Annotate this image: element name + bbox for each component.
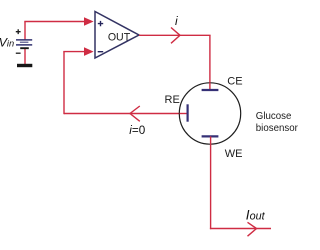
current arrow i chevron bbox=[171, 28, 180, 44]
current arrow i=0 chevron bbox=[130, 106, 140, 121]
glucose biosensor circle bbox=[179, 83, 240, 144]
voltage source V1 minus sign bbox=[16, 52, 21, 54]
voltage source V1 plus sign bbox=[16, 29, 21, 34]
wire into RE redraw over circle bbox=[180, 113, 187, 115]
svg-text:Iout: Iout bbox=[246, 207, 266, 222]
op-amp plus input symbol bbox=[98, 21, 103, 26]
battery plate long bottom bbox=[16, 44, 32, 46]
wire WE down bbox=[210, 136, 212, 229]
svg-text:RE: RE bbox=[165, 94, 180, 106]
svg-text:Vin: Vin bbox=[0, 36, 14, 50]
op-amp minus input symbol bbox=[98, 51, 104, 53]
svg-text:WE: WE bbox=[225, 148, 243, 160]
ground bbox=[17, 64, 32, 67]
wire op-amp output bbox=[139, 34, 211, 36]
battery plate short black bbox=[20, 47, 29, 49]
wire output down to CE bbox=[209, 35, 211, 89]
wire battery bottom to ground bbox=[24, 48, 26, 64]
arrowhead into plus input bbox=[84, 17, 94, 26]
wire bottom horizontal to Iout bbox=[210, 228, 271, 230]
wire into CE redraw over circle bbox=[209, 83, 211, 90]
current arrow Iout chevron bbox=[248, 222, 257, 236]
electrode CE bar bbox=[202, 89, 219, 91]
op-amp U1 body bbox=[95, 12, 139, 59]
svg-text:i=0: i=0 bbox=[129, 124, 145, 137]
svg-text:CE: CE bbox=[227, 76, 242, 88]
svg-text:biosensor: biosensor bbox=[256, 123, 299, 134]
wire battery top vertical bbox=[24, 22, 26, 41]
wire battery to op-amp plus input bbox=[24, 21, 85, 23]
battery plate short mid bbox=[20, 41, 29, 43]
arrowhead into minus input bbox=[84, 47, 94, 56]
svg-text:Glucose: Glucose bbox=[256, 111, 292, 122]
wire feedback to minus input bbox=[63, 51, 85, 53]
wire feedback from RE bbox=[64, 113, 187, 115]
electrode RE bar bbox=[187, 104, 189, 121]
svg-text:i: i bbox=[175, 14, 178, 28]
battery plate long top bbox=[16, 39, 32, 41]
electrode WE bar bbox=[202, 135, 219, 137]
svg-text:OUT: OUT bbox=[108, 32, 131, 44]
wire feedback vertical bbox=[63, 52, 65, 115]
